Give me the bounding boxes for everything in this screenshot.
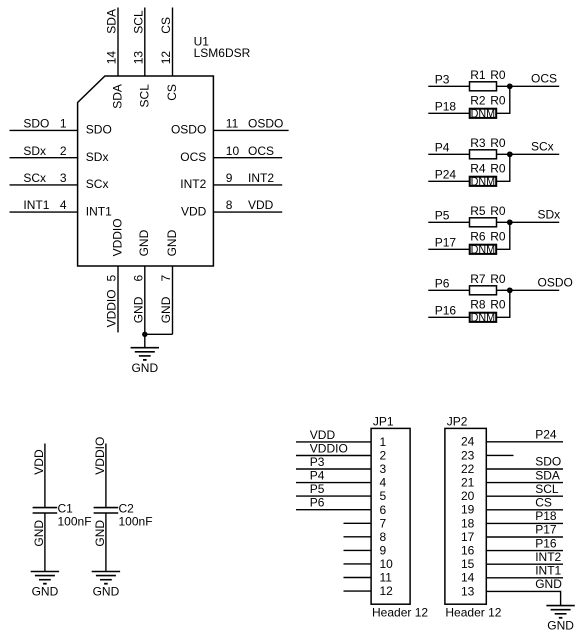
wire R4 to junction <box>497 154 510 181</box>
wire net VDD (JP1 pin 1) <box>296 441 371 443</box>
net label OSDO <box>248 117 283 131</box>
R4 value R0 <box>490 162 506 176</box>
junction node SDx <box>508 221 512 225</box>
JP2 value Header 12 <box>445 606 501 620</box>
JP1 pin 4 number <box>380 476 387 490</box>
R4 reference designator <box>470 162 486 176</box>
svg-text:13: 13 <box>131 51 145 65</box>
svg-text:10: 10 <box>226 144 240 158</box>
wire net P5 (JP1 pin 5) <box>296 495 371 497</box>
wire net OCS <box>510 85 559 87</box>
svg-text:22: 22 <box>461 462 475 476</box>
svg-text:21: 21 <box>461 476 475 490</box>
svg-text:GND: GND <box>547 618 574 632</box>
svg-text:SDA: SDA <box>535 468 560 482</box>
ground label GND <box>131 361 158 375</box>
net label CS <box>159 17 173 34</box>
svg-text:20: 20 <box>461 489 475 503</box>
U1 pin 14 name SDA <box>111 84 125 109</box>
wire stub JP1 pin 9 <box>344 549 372 551</box>
net label P5 <box>310 482 325 496</box>
net label CS <box>535 496 552 510</box>
resistor R5 <box>470 218 497 227</box>
svg-text:VDD: VDD <box>248 198 274 212</box>
wire net CS (JP2 pin 19) <box>486 509 563 511</box>
JP2 pin 24 number <box>461 435 475 449</box>
net label P24 <box>435 168 457 182</box>
net label SCx <box>23 171 46 185</box>
R5 value R0 <box>490 204 506 218</box>
svg-text:INT1: INT1 <box>23 198 49 212</box>
wire net VDDIO (JP1 pin 2) <box>296 455 371 457</box>
svg-text:1: 1 <box>60 117 67 131</box>
net label P5 <box>435 209 450 223</box>
R8 value R0 <box>490 298 506 312</box>
wire net P24 <box>428 180 469 182</box>
svg-text:2: 2 <box>60 144 67 158</box>
wire net SDA (JP2 pin 21) <box>486 482 563 484</box>
U1 pin 11 name OSDO <box>171 123 206 137</box>
U1 pin 2 number <box>60 144 67 158</box>
svg-text:7: 7 <box>380 516 387 530</box>
svg-text:4: 4 <box>380 476 387 490</box>
svg-text:12: 12 <box>380 584 394 598</box>
wire net P5 <box>428 221 469 223</box>
resistor R6 (DNM) <box>470 245 497 254</box>
svg-text:P18: P18 <box>435 100 457 114</box>
net label P24 <box>535 428 557 442</box>
wire net OSDO (U1 pin 11) <box>213 129 288 131</box>
wire net SCx (U1 pin 3) <box>10 184 78 186</box>
wire net P16 (JP2 pin 16) <box>486 550 563 552</box>
svg-text:R6: R6 <box>470 230 486 244</box>
wire C1 bottom to ground <box>44 513 46 572</box>
net label VDD <box>248 198 274 212</box>
JP2 pin 15 number <box>461 557 475 571</box>
svg-text:R7: R7 <box>470 272 486 286</box>
svg-text:GND: GND <box>131 361 158 375</box>
svg-text:14: 14 <box>461 571 475 585</box>
wire net SCL (JP2 pin 20) <box>486 495 563 497</box>
JP2 reference designator <box>447 414 468 428</box>
wire stub JP1 pin 12 <box>344 590 372 592</box>
U1 pin 8 number <box>226 198 233 212</box>
wire stub JP1 pin 8 <box>344 536 372 538</box>
svg-text:R2: R2 <box>470 94 486 108</box>
net label OCS <box>531 71 557 85</box>
junction GND node <box>143 333 146 336</box>
wire net VDD (C1 top) <box>44 444 46 508</box>
svg-text:15: 15 <box>461 557 475 571</box>
svg-text:INT1: INT1 <box>535 564 561 578</box>
svg-text:SCL: SCL <box>137 84 151 108</box>
ground symbol (JP2 GND) <box>546 606 574 618</box>
U1 pin 4 name INT1 <box>86 204 112 218</box>
ground label GND <box>547 618 574 632</box>
svg-text:R4: R4 <box>470 162 486 176</box>
JP2 pin 13 number <box>461 584 475 598</box>
net label GND (C1) <box>32 520 46 547</box>
wire junction to ground <box>144 334 146 347</box>
U1 pin 3 name SCx <box>86 177 109 191</box>
svg-text:SDA: SDA <box>105 9 119 34</box>
net label SDA <box>105 9 119 34</box>
wire stub JP2 pin 23 <box>486 454 513 456</box>
JP2 pin 18 number <box>461 516 475 530</box>
svg-text:R5: R5 <box>470 204 486 218</box>
wire net INT1 (U1 pin 4) <box>10 211 78 213</box>
svg-text:GND: GND <box>165 229 179 256</box>
U1 pin 8 name VDD <box>181 204 207 218</box>
svg-text:18: 18 <box>461 516 475 530</box>
net label P6 <box>310 496 325 510</box>
JP1 pin 1 number <box>380 435 387 449</box>
U1 pin 12 number <box>159 51 173 65</box>
svg-text:LSM6DSR: LSM6DSR <box>194 46 251 60</box>
svg-text:OSDO: OSDO <box>248 117 283 131</box>
svg-text:VDDIO: VDDIO <box>310 441 348 455</box>
svg-text:Header 12: Header 12 <box>372 605 428 619</box>
svg-text:8: 8 <box>226 198 233 212</box>
svg-text:11: 11 <box>226 117 239 131</box>
svg-text:16: 16 <box>461 544 475 558</box>
resistor R2 (DNM) <box>470 109 497 118</box>
wire R3 to junction <box>497 153 510 155</box>
wire net INT2 (U1 pin 9) <box>213 184 282 186</box>
ground label GND <box>32 585 59 599</box>
wire net P3 (JP1 pin 3) <box>296 468 371 470</box>
wire net VDDIO (U1 pin 5) <box>117 266 119 332</box>
svg-text:11: 11 <box>380 571 393 585</box>
svg-text:VDDIO: VDDIO <box>105 289 119 327</box>
svg-text:P24: P24 <box>435 168 457 182</box>
svg-text:OSDO: OSDO <box>171 123 206 137</box>
wire net OSDO <box>510 289 559 291</box>
net label P4 <box>435 141 450 155</box>
net label GND (pin 7) <box>159 296 173 323</box>
svg-text:P5: P5 <box>435 209 450 223</box>
svg-text:SCL: SCL <box>535 482 559 496</box>
net label P4 <box>310 469 325 483</box>
net label INT1 <box>535 564 561 578</box>
svg-text:GND: GND <box>159 296 173 323</box>
ground symbol (U1 GND) <box>131 348 159 360</box>
svg-text:SDO: SDO <box>535 455 561 469</box>
net label GND <box>535 577 562 591</box>
svg-text:GND: GND <box>137 229 151 256</box>
svg-text:GND: GND <box>535 577 562 591</box>
net label SDO <box>535 455 561 469</box>
resistor R4 (DNM) <box>470 177 497 186</box>
R7 value R0 <box>490 272 506 286</box>
svg-text:2: 2 <box>380 449 387 463</box>
svg-text:P18: P18 <box>535 509 557 523</box>
R1 reference designator <box>470 68 486 82</box>
svg-text:VDD: VDD <box>32 449 46 475</box>
capacitor C2 <box>94 508 119 513</box>
U1 part value LSM6DSR <box>194 46 251 60</box>
svg-text:DNM: DNM <box>471 107 496 121</box>
svg-text:GND: GND <box>93 520 107 547</box>
net label SDx <box>23 144 46 158</box>
svg-text:P5: P5 <box>310 482 325 496</box>
svg-text:DNM: DNM <box>471 243 496 257</box>
svg-text:24: 24 <box>461 435 475 449</box>
svg-text:SCx: SCx <box>23 171 46 185</box>
svg-text:P3: P3 <box>310 455 325 469</box>
svg-text:8: 8 <box>380 530 387 544</box>
JP1 pin 5 number <box>380 489 387 503</box>
wire U1 pin 7 down <box>172 266 174 334</box>
wire R8 to junction <box>497 290 510 317</box>
U1 pin 1 name SDO <box>86 123 112 137</box>
U1 pin 6 number <box>131 275 145 282</box>
svg-text:5: 5 <box>105 275 119 282</box>
JP2 pin 23 number <box>461 448 475 462</box>
JP2 pin 14 number <box>461 571 475 585</box>
wire net P6 <box>428 289 469 291</box>
svg-text:VDDIO: VDDIO <box>93 437 107 475</box>
svg-text:P17: P17 <box>535 523 557 537</box>
svg-text:14: 14 <box>105 51 119 65</box>
U1 pin 13 name SCL <box>137 84 151 108</box>
wire C2 bottom to ground <box>105 513 107 572</box>
net label P17 <box>435 236 457 250</box>
svg-text:R0: R0 <box>490 204 506 218</box>
R6 DNM marking <box>471 243 496 257</box>
svg-text:OCS: OCS <box>248 144 274 158</box>
svg-text:CS: CS <box>535 496 552 510</box>
net label P17 <box>535 523 557 537</box>
wire net P4 (JP1 pin 4) <box>296 482 371 484</box>
wire net SDO (U1 pin 1) <box>10 129 78 131</box>
svg-text:SCL: SCL <box>131 10 145 34</box>
wire net SDA (U1 pin 14) <box>117 8 119 77</box>
JP1 pin 2 number <box>380 449 387 463</box>
svg-text:9: 9 <box>380 544 387 558</box>
wire net INT1 (JP2 pin 14) <box>486 577 563 579</box>
svg-text:SDx: SDx <box>86 150 109 164</box>
svg-text:P6: P6 <box>310 496 325 510</box>
svg-text:P17: P17 <box>435 236 457 250</box>
svg-text:SDO: SDO <box>23 117 49 131</box>
svg-text:VDD: VDD <box>310 428 336 442</box>
net label SCx <box>531 139 554 153</box>
wire stub JP1 pin 10 <box>344 563 372 565</box>
U1 pin 12 name CS <box>165 84 179 101</box>
JP2 pin 22 number <box>461 462 475 476</box>
U1 pin 7 name GND <box>165 229 179 256</box>
svg-text:INT2: INT2 <box>180 177 206 191</box>
net label GND (pin 6) <box>131 296 145 323</box>
wire stub JP1 pin 11 <box>344 577 372 579</box>
svg-text:OCS: OCS <box>531 71 557 85</box>
svg-text:JP2: JP2 <box>447 414 468 428</box>
net label SDx <box>538 207 561 221</box>
R2 value R0 <box>490 94 506 108</box>
svg-text:R0: R0 <box>490 230 506 244</box>
svg-text:R0: R0 <box>490 68 506 82</box>
net label INT1 <box>23 198 49 212</box>
svg-text:6: 6 <box>131 275 145 282</box>
svg-text:4: 4 <box>60 198 67 212</box>
svg-text:GND: GND <box>93 585 120 599</box>
JP1 pin 3 number <box>380 462 387 476</box>
svg-text:P6: P6 <box>435 277 450 291</box>
svg-text:DNM: DNM <box>471 311 496 325</box>
U1 pin 1 number <box>60 117 67 131</box>
net label SDO <box>23 117 49 131</box>
wire net P17 <box>428 248 469 250</box>
svg-text:JP1: JP1 <box>373 414 394 428</box>
svg-text:INT2: INT2 <box>248 171 274 185</box>
net label SCL <box>535 482 559 496</box>
JP2 pin 19 number <box>461 503 475 517</box>
junction node OSDO <box>508 289 512 293</box>
svg-text:6: 6 <box>380 503 387 517</box>
U1 pin 9 name INT2 <box>180 177 206 191</box>
wire net OCS (U1 pin 10) <box>213 157 282 159</box>
svg-text:P16: P16 <box>535 536 557 550</box>
svg-text:100nF: 100nF <box>119 514 153 528</box>
R3 value R0 <box>490 136 506 150</box>
svg-text:19: 19 <box>461 503 475 517</box>
IC U1 body <box>78 76 214 266</box>
wire net P17 (JP2 pin 17) <box>486 536 563 538</box>
U1 pin 5 number <box>105 275 119 282</box>
JP2 pin 17 number <box>461 530 475 544</box>
capacitor C1 <box>33 508 58 513</box>
net label INT2 <box>535 550 561 564</box>
U1 pin 2 name SDx <box>86 150 109 164</box>
net label INT2 <box>248 171 274 185</box>
JP2 pin 21 number <box>461 476 475 490</box>
JP1 reference designator <box>373 414 394 428</box>
net label P6 <box>435 277 450 291</box>
svg-text:3: 3 <box>60 171 67 185</box>
resistor R8 (DNM) <box>470 313 497 322</box>
R2 reference designator <box>470 94 486 108</box>
JP2 pin 20 number <box>461 489 475 503</box>
net label P16 <box>435 304 457 318</box>
svg-text:CS: CS <box>159 17 173 34</box>
svg-text:P24: P24 <box>535 428 557 442</box>
net label OCS <box>248 144 274 158</box>
ground symbol (C1) <box>31 572 59 584</box>
svg-text:100nF: 100nF <box>58 514 92 528</box>
wire R2 to junction <box>497 86 510 113</box>
svg-text:R3: R3 <box>470 136 486 150</box>
svg-text:SDO: SDO <box>86 123 112 137</box>
wire net SDx <box>510 221 559 223</box>
net label P3 <box>435 73 450 87</box>
U1 pin 4 number <box>60 198 67 212</box>
svg-text:9: 9 <box>226 171 233 185</box>
U1 pin 14 number <box>105 51 119 65</box>
net label VDDIO <box>105 289 119 327</box>
svg-text:P4: P4 <box>435 141 450 155</box>
R6 value R0 <box>490 230 506 244</box>
net label P16 <box>535 536 557 550</box>
svg-text:17: 17 <box>461 530 475 544</box>
svg-text:SCx: SCx <box>86 177 109 191</box>
header JP2 body <box>445 428 486 604</box>
wire U1 pin 6 to ground junction <box>144 266 146 334</box>
U1 pin 13 number <box>131 51 145 65</box>
svg-text:R0: R0 <box>490 136 506 150</box>
U1 pin 5 name VDDIO <box>110 218 124 256</box>
svg-text:SDA: SDA <box>111 84 125 109</box>
svg-text:5: 5 <box>380 489 387 503</box>
wire net P3 <box>428 85 469 87</box>
wire net SDO (JP2 pin 22) <box>486 468 563 470</box>
svg-text:R0: R0 <box>490 298 506 312</box>
resistor R3 <box>470 150 497 159</box>
svg-text:INT2: INT2 <box>535 550 561 564</box>
svg-text:VDD: VDD <box>181 204 207 218</box>
wire R7 to junction <box>497 289 510 291</box>
svg-text:SCx: SCx <box>531 139 554 153</box>
svg-text:1: 1 <box>380 435 387 449</box>
svg-text:GND: GND <box>32 585 59 599</box>
wire net VDDIO (C2 top) <box>105 444 107 508</box>
net label SCL <box>131 10 145 34</box>
svg-text:13: 13 <box>461 584 475 598</box>
JP1 pin 11 number <box>380 571 393 585</box>
net label VDDIO <box>93 437 107 475</box>
R7 reference designator <box>470 272 486 286</box>
net label VDD <box>32 449 46 475</box>
JP1 pin 7 number <box>380 516 387 530</box>
U1 pin 3 number <box>60 171 67 185</box>
svg-text:23: 23 <box>461 448 475 462</box>
svg-text:R0: R0 <box>490 162 506 176</box>
U1 pin 7 number <box>159 275 173 282</box>
R2 DNM marking <box>471 107 496 121</box>
JP1 pin 9 number <box>380 544 387 558</box>
R3 reference designator <box>470 136 486 150</box>
net label P18 <box>535 509 557 523</box>
net label GND (C2) <box>93 520 107 547</box>
R5 reference designator <box>470 204 486 218</box>
junction node SCx <box>508 153 512 157</box>
net label OSDO <box>538 275 573 289</box>
svg-text:CS: CS <box>165 84 179 101</box>
R6 reference designator <box>470 230 486 244</box>
net label VDD <box>310 428 336 442</box>
svg-text:INT1: INT1 <box>86 204 112 218</box>
wire net SDx (U1 pin 2) <box>10 157 78 159</box>
C1 value 100nF <box>58 514 92 528</box>
net label SDA <box>535 468 560 482</box>
wire net SCx <box>510 153 559 155</box>
svg-text:GND: GND <box>131 296 145 323</box>
wire pin 7 to junction <box>145 333 173 335</box>
svg-text:3: 3 <box>380 462 387 476</box>
resistor R7 <box>470 286 497 295</box>
svg-text:R0: R0 <box>490 272 506 286</box>
svg-text:P3: P3 <box>435 73 450 87</box>
U1 pin 9 number <box>226 171 233 185</box>
svg-text:7: 7 <box>159 275 173 282</box>
JP1 pin 12 number <box>380 584 394 598</box>
JP2 pin 16 number <box>461 544 475 558</box>
wire net P6 (JP1 pin 6) <box>296 509 371 511</box>
wire R6 to junction <box>497 222 510 249</box>
wire net CS (U1 pin 12) <box>172 8 174 77</box>
svg-text:GND: GND <box>32 520 46 547</box>
svg-text:P4: P4 <box>310 469 325 483</box>
